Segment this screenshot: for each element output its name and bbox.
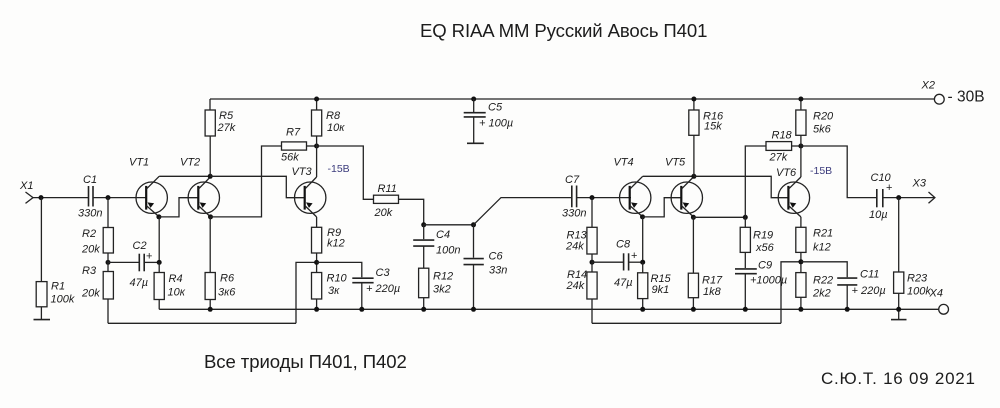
wire R8 to node D bbox=[316, 136, 318, 146]
svg-text:R23: R23 bbox=[907, 273, 928, 285]
resistor R9 bbox=[312, 227, 345, 253]
svg-text:х56: х56 bbox=[755, 242, 775, 254]
node R16 rail dot bbox=[691, 97, 696, 102]
capacitor C1 bbox=[78, 174, 102, 220]
svg-text:+ 100µ: + 100µ bbox=[479, 118, 513, 130]
wire R13 to R14 bbox=[591, 254, 593, 272]
svg-text:C4: C4 bbox=[436, 229, 450, 241]
resistor R18 bbox=[766, 130, 793, 164]
capacitor C5 bbox=[464, 99, 513, 143]
svg-text:C9: C9 bbox=[758, 260, 772, 272]
node E dot R9/R10 bbox=[314, 260, 319, 265]
svg-text:27k: 27k bbox=[217, 122, 236, 134]
svg-text:100k: 100k bbox=[51, 294, 75, 306]
wire VT2 emitter to R7 bbox=[211, 146, 282, 217]
wire rail to R16 bbox=[693, 99, 695, 110]
wire R21 to node L bbox=[800, 252, 802, 272]
wire VT6 emitter down to R21 bbox=[800, 217, 802, 227]
terminal X4 bbox=[939, 304, 949, 314]
svg-text:-15В: -15В bbox=[810, 165, 832, 177]
wire VT1 emitter down to R4 bbox=[158, 217, 160, 263]
svg-text:R8: R8 bbox=[326, 110, 341, 122]
svg-text:-15В: -15В bbox=[328, 163, 350, 175]
svg-text:100n: 100n bbox=[436, 245, 460, 257]
svg-text:330n: 330n bbox=[78, 208, 102, 220]
wire R23 node to ground bbox=[898, 309, 900, 319]
resistor R3 bbox=[81, 265, 113, 300]
wire C3 to bottom rail bbox=[361, 283, 363, 310]
resistor R8 bbox=[312, 110, 346, 136]
wire VT3 emitter down to R9 bbox=[316, 217, 318, 227]
svg-text:+1000µ: +1000µ bbox=[750, 275, 787, 287]
node H dot C7/R13 bbox=[590, 195, 595, 200]
wire R7 to node D bbox=[307, 145, 317, 147]
node R8 top rail dot bbox=[314, 97, 319, 102]
wire node J up to R18 bbox=[745, 146, 766, 217]
capacitor C11 bbox=[837, 269, 885, 298]
node R20 rail dot bbox=[798, 97, 803, 102]
svg-text:9k1: 9k1 bbox=[652, 284, 670, 296]
svg-text:R6: R6 bbox=[220, 273, 235, 285]
wire node B down to R2 bbox=[107, 198, 109, 228]
svg-text:C2: C2 bbox=[133, 240, 147, 252]
svg-text:VT5: VT5 bbox=[665, 157, 686, 169]
wire feedback riser left bbox=[296, 262, 317, 323]
node G dot C6 top bbox=[471, 222, 476, 227]
node rail dot R12 bbox=[421, 307, 426, 312]
resistor R14 bbox=[566, 269, 598, 299]
transistor VT2 bbox=[180, 157, 220, 217]
wire VT4 emitter down to C8 node bbox=[642, 217, 644, 262]
svg-text:47µ: 47µ bbox=[130, 277, 149, 289]
node VT5 collector dot bbox=[691, 174, 696, 179]
svg-text:X4: X4 bbox=[929, 288, 943, 300]
wire VT1 emitter to VT2 base bbox=[159, 198, 198, 217]
wire node C to C2 bbox=[108, 261, 139, 263]
node B dot bbox=[106, 195, 111, 200]
wire C10 to X3 bbox=[883, 197, 935, 199]
capacitor C3 bbox=[352, 267, 400, 295]
svg-text:C1: C1 bbox=[83, 174, 97, 186]
svg-text:R10: R10 bbox=[327, 273, 348, 285]
node VT2 emitter dot bbox=[208, 214, 213, 219]
svg-text:R5: R5 bbox=[219, 110, 234, 122]
wire node L to C11 bbox=[801, 262, 847, 278]
node rail dot R6 bbox=[208, 307, 213, 312]
wire R6 to bottom rail bbox=[209, 300, 211, 310]
wire feedback rail right bbox=[592, 322, 781, 324]
wire node E to C3 bbox=[317, 262, 362, 277]
svg-text:5k6: 5k6 bbox=[813, 124, 832, 136]
wire C6 to bottom rail bbox=[473, 265, 475, 310]
wire R16 to collector node bbox=[693, 135, 695, 176]
capacitor C4 bbox=[413, 229, 460, 257]
wire feedback rail left bbox=[108, 322, 296, 324]
wire VT5 collector to VT6 base bbox=[694, 176, 789, 197]
node rail dot C3 bbox=[359, 307, 364, 312]
resistor R15 bbox=[638, 273, 672, 299]
resistor R16 bbox=[689, 110, 724, 135]
transistor VT3 bbox=[292, 166, 326, 217]
svg-text:+: + bbox=[886, 182, 892, 194]
wire R4 node to R4 bbox=[158, 262, 160, 272]
resistor R22 bbox=[796, 273, 833, 300]
svg-text:R3: R3 bbox=[82, 265, 97, 277]
wire node D to R11 bbox=[317, 146, 374, 199]
svg-text:1k8: 1k8 bbox=[703, 286, 722, 298]
svg-text:k12: k12 bbox=[813, 242, 831, 254]
wire R18 to node K bbox=[792, 145, 801, 147]
node VT4 emitter dot bbox=[640, 214, 645, 219]
wire diagonal node G to C7 row bbox=[474, 198, 572, 225]
power rail -30V top bbox=[210, 99, 934, 110]
transistor VT6 bbox=[776, 167, 810, 217]
resistor R10 bbox=[312, 273, 348, 300]
wire X1 to C1 bbox=[33, 197, 88, 199]
svg-text:k12: k12 bbox=[327, 238, 345, 250]
svg-text:R7: R7 bbox=[286, 127, 301, 139]
wire rail to R20 bbox=[800, 99, 802, 110]
wire R5 to collector node bbox=[209, 136, 211, 176]
resistor R13 bbox=[565, 227, 597, 254]
wire R11 to node F bbox=[399, 199, 424, 225]
node VT2 collector / R5 dot bbox=[208, 174, 213, 179]
transistor VT5 bbox=[665, 157, 703, 217]
wire R23 to bottom rail bbox=[898, 293, 900, 309]
svg-text:10µ: 10µ bbox=[869, 209, 888, 221]
svg-text:R12: R12 bbox=[433, 271, 453, 283]
svg-text:24k: 24k bbox=[565, 241, 584, 253]
transistor VT4 bbox=[614, 157, 651, 217]
node rail dot C9 bbox=[743, 307, 748, 312]
svg-text:VT2: VT2 bbox=[180, 157, 200, 169]
svg-text:56k: 56k bbox=[281, 151, 299, 163]
wire node H down to R13 bbox=[591, 198, 593, 228]
node rail dot R17 bbox=[691, 307, 696, 312]
svg-text:10к: 10к bbox=[168, 287, 186, 299]
svg-text:C5: C5 bbox=[488, 102, 503, 114]
wire R15 to bottom rail bbox=[642, 299, 644, 310]
node C5 rail dot bbox=[471, 97, 476, 102]
svg-text:Все триоды П401, П402: Все триоды П401, П402 bbox=[204, 351, 407, 372]
svg-text:- 30В: - 30В bbox=[948, 89, 985, 106]
svg-text:+: + bbox=[146, 251, 152, 263]
terminal X3 arrow bbox=[912, 178, 935, 204]
svg-text:VT3: VT3 bbox=[292, 166, 313, 178]
svg-text:X1: X1 bbox=[19, 180, 33, 192]
wire C4 to R12 bbox=[423, 246, 425, 268]
svg-text:330n: 330n bbox=[562, 208, 586, 220]
resistor R7 bbox=[281, 127, 307, 164]
wire R4 to bottom rail bbox=[158, 300, 160, 310]
svg-text:VT6: VT6 bbox=[776, 167, 797, 179]
node C dot R2/R3 bbox=[106, 260, 111, 265]
resistor R20 bbox=[796, 110, 834, 136]
wire VT5 emitter down to R17 bbox=[692, 217, 694, 273]
wire R14 down to feedback rail right bbox=[591, 299, 593, 323]
wire R22 to bottom rail bbox=[800, 297, 802, 309]
node rail dot R15 bbox=[640, 307, 645, 312]
svg-text:R17: R17 bbox=[702, 275, 723, 287]
wire node to R15 bbox=[642, 262, 644, 273]
node VT1 emitter dot bbox=[156, 214, 161, 219]
wire C2 to R4 node bbox=[144, 261, 159, 263]
wire rail to R8 bbox=[316, 99, 318, 110]
svg-text:20k: 20k bbox=[374, 207, 393, 219]
resistor R17 bbox=[688, 273, 723, 298]
terminal X2 bbox=[921, 80, 945, 105]
wire R2 to R3 bbox=[107, 253, 109, 272]
svg-text:47µ: 47µ bbox=[614, 277, 633, 289]
svg-text:VT1: VT1 bbox=[129, 157, 149, 169]
node I dot R13/R14/C8 bbox=[590, 260, 595, 265]
svg-text:3к: 3к bbox=[328, 285, 340, 297]
wire node G to C6 bbox=[473, 225, 475, 258]
node R4/C2 dot bbox=[157, 260, 162, 265]
svg-text:C11: C11 bbox=[860, 269, 879, 281]
resistor R11 bbox=[374, 183, 399, 219]
wire node J down to R19 bbox=[744, 217, 746, 227]
node F dot C4 top bbox=[421, 222, 426, 227]
wire R20 to node K bbox=[800, 135, 802, 146]
wire node F to C4 bbox=[423, 225, 425, 239]
svg-text:R20: R20 bbox=[813, 111, 834, 123]
svg-text:C6: C6 bbox=[489, 251, 504, 263]
wire feedback riser right bbox=[781, 262, 801, 324]
svg-text:R11: R11 bbox=[378, 183, 397, 195]
svg-text:X2: X2 bbox=[921, 80, 935, 92]
capacitor C10 bbox=[869, 172, 892, 221]
resistor R19 bbox=[740, 227, 774, 254]
wire node M down to R23 bbox=[898, 198, 900, 272]
capacitor C7 bbox=[562, 174, 586, 220]
wire R19 to C9 bbox=[744, 252, 746, 268]
capacitor C2 bbox=[130, 240, 153, 289]
capacitor C9 bbox=[735, 260, 787, 287]
node M dot output bbox=[896, 195, 901, 200]
wire node K to C10 bbox=[801, 146, 876, 198]
wire VT2 collector to VT3 base bbox=[210, 176, 305, 197]
wire R17 to bottom rail bbox=[692, 298, 694, 310]
svg-text:3к6: 3к6 bbox=[218, 287, 236, 299]
svg-text:20k: 20k bbox=[81, 288, 100, 300]
node rail dot C11 bbox=[845, 307, 850, 312]
svg-text:C3: C3 bbox=[376, 267, 391, 279]
resistor R21 bbox=[796, 227, 833, 253]
wire C1 to VT1 base bbox=[93, 197, 147, 199]
wire C8 to R15 node bbox=[629, 261, 643, 263]
wire C9 to bottom rail bbox=[744, 274, 746, 310]
svg-text:С.Ю.Т. 16 09 2021: С.Ю.Т. 16 09 2021 bbox=[821, 369, 976, 388]
svg-text:R2: R2 bbox=[82, 228, 96, 240]
node rail dot R22 bbox=[798, 307, 803, 312]
wire R10 to bottom rail bbox=[316, 299, 318, 309]
node K dot R18/R20/VT6 bbox=[798, 144, 803, 149]
node rail dot R23 bbox=[896, 307, 901, 312]
node rail dot C6 bbox=[471, 307, 476, 312]
svg-text:R1: R1 bbox=[51, 281, 65, 293]
node L dot R21/R22 bbox=[798, 259, 803, 264]
svg-text:10к: 10к bbox=[327, 122, 345, 134]
svg-text:C8: C8 bbox=[616, 239, 631, 251]
svg-text:27k: 27k bbox=[769, 151, 788, 163]
svg-text:R22: R22 bbox=[813, 275, 833, 287]
svg-text:VT4: VT4 bbox=[614, 157, 634, 169]
capacitor C8 bbox=[614, 239, 637, 290]
wire R12 to bottom rail bbox=[423, 298, 425, 310]
node rail dot R10 bbox=[314, 307, 319, 312]
svg-text:+: + bbox=[631, 250, 637, 262]
svg-text:X3: X3 bbox=[912, 178, 927, 190]
svg-text:C7: C7 bbox=[565, 174, 580, 186]
wire node I to C8 bbox=[592, 261, 624, 263]
resistor R12 bbox=[419, 268, 454, 298]
node R15/C8 dot bbox=[640, 260, 645, 265]
wire R3 down to feedback rail bbox=[107, 299, 109, 323]
wire C7 to VT4 base bbox=[577, 197, 631, 199]
resistor R23 bbox=[894, 272, 943, 300]
wire VT2 emitter down to R6 bbox=[209, 217, 211, 273]
svg-text:2k2: 2k2 bbox=[812, 288, 831, 300]
wire VT6 collector up to node K bbox=[800, 146, 802, 177]
svg-text:3k2: 3k2 bbox=[433, 284, 451, 296]
node A dot bbox=[39, 195, 44, 200]
wire node A down to R1 bbox=[40, 198, 42, 282]
resistor R5 bbox=[205, 110, 236, 136]
wire R9 to node E bbox=[316, 253, 318, 273]
wire VT3 collector up to node D bbox=[316, 146, 318, 177]
resistor R4 bbox=[154, 273, 186, 300]
ground bbox=[34, 319, 51, 321]
wire VT1 collector to R5 node bbox=[159, 175, 210, 177]
svg-text:24k: 24k bbox=[566, 280, 585, 292]
svg-text:R21: R21 bbox=[813, 228, 833, 240]
capacitor C6 bbox=[464, 251, 508, 277]
svg-text:33n: 33n bbox=[489, 265, 507, 277]
svg-text:15k: 15k bbox=[704, 121, 722, 133]
svg-text:R18: R18 bbox=[772, 130, 793, 142]
node D dot R7/R8/VT3 bbox=[314, 144, 319, 149]
svg-text:100k: 100k bbox=[907, 286, 931, 298]
svg-text:+ 220µ: + 220µ bbox=[852, 285, 886, 297]
ground right bbox=[891, 319, 907, 321]
wire VT4 emitter to VT5 base bbox=[643, 198, 682, 217]
node VT5 emitter dot bbox=[691, 215, 696, 220]
wire VT4 collector to R16 node bbox=[643, 175, 694, 177]
wire node F to node G bbox=[424, 224, 474, 226]
wire R1 to ground bbox=[40, 307, 42, 320]
transistor VT1 bbox=[129, 157, 167, 217]
resistor R2 bbox=[81, 228, 113, 256]
svg-text:R19: R19 bbox=[753, 230, 773, 242]
bottom common rail bbox=[159, 308, 939, 310]
svg-text:+ 220µ: + 220µ bbox=[366, 283, 400, 295]
terminal X1 bbox=[19, 180, 33, 203]
resistor R1 bbox=[36, 281, 75, 307]
wire C11 to bottom rail bbox=[846, 285, 848, 309]
svg-text:EQ RIAA MM Русский Авось П401: EQ RIAA MM Русский Авось П401 bbox=[420, 20, 707, 41]
svg-text:R4: R4 bbox=[169, 273, 183, 285]
resistor R6 bbox=[205, 273, 236, 300]
wire VT5 emitter to R18/R19 node bbox=[693, 216, 745, 218]
svg-text:20k: 20k bbox=[81, 244, 100, 256]
node J dot R18/R19 bbox=[743, 215, 748, 220]
